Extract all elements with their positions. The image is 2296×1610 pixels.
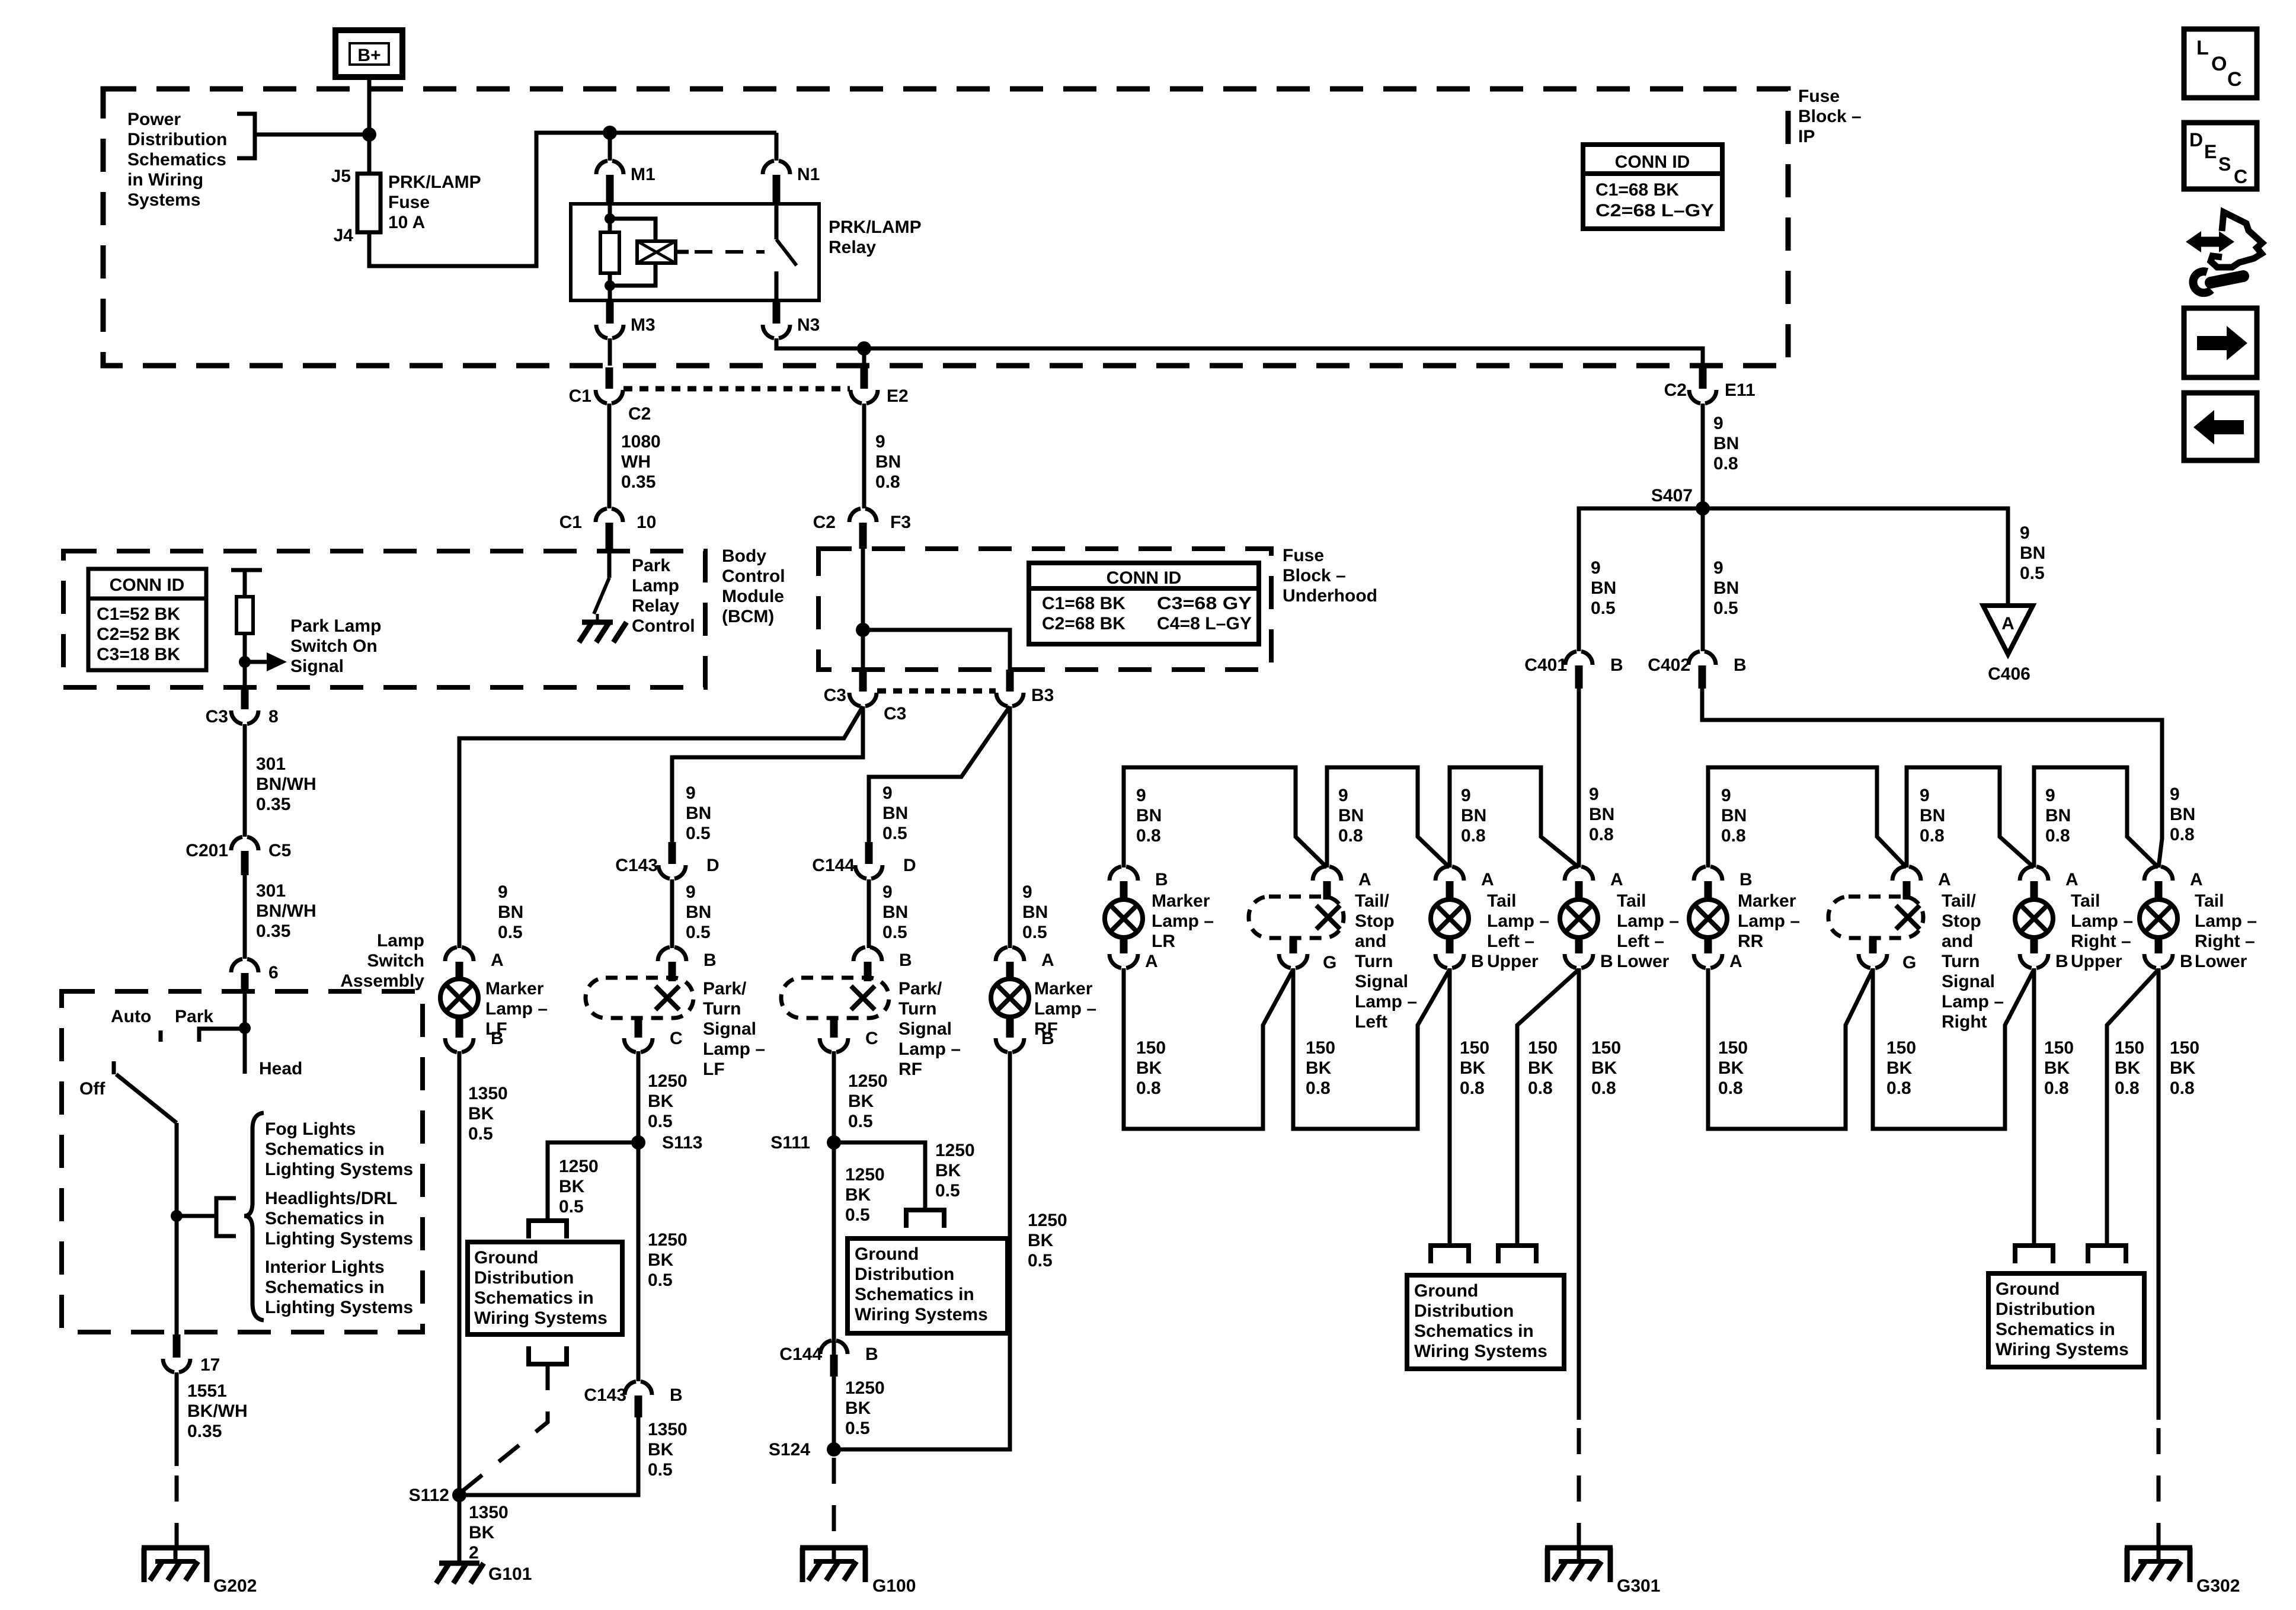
wire marker RR A to tail/stop right G [1708, 968, 1873, 1129]
svg-text:A: A [1145, 952, 1158, 971]
svg-text:M3: M3 [631, 315, 655, 335]
ground G202 [142, 1545, 209, 1551]
svg-text:BN: BN [1136, 806, 1162, 825]
lamp element X park/turn signal lamp LF [655, 986, 679, 1010]
wire junction to B3 [863, 630, 1010, 671]
svg-text:9: 9 [1721, 786, 1731, 805]
wire relay switch upper [775, 204, 779, 239]
svg-text:0.5: 0.5 [882, 923, 907, 942]
svg-text:C: C [2227, 68, 2242, 91]
svg-text:BN: BN [882, 804, 908, 823]
svg-text:B: B [2055, 952, 2068, 971]
svg-text:BK: BK [1306, 1058, 1332, 1078]
wire S407 to C401 [1579, 508, 1703, 651]
relay switch blade [776, 239, 797, 265]
svg-text:BN: BN [2020, 543, 2045, 563]
wire tail right upper B to ground dist [2032, 968, 2036, 1246]
svg-text:C201: C201 [186, 841, 228, 860]
svg-text:CONN ID: CONN ID [1107, 568, 1182, 588]
icon locator arrows [2196, 237, 2224, 247]
svg-text:1080: 1080 [621, 432, 661, 452]
svg-text:Park/: Park/ [703, 979, 747, 998]
svg-text:BN/WH: BN/WH [256, 901, 316, 921]
svg-text:B: B [670, 1385, 683, 1405]
svg-text:C: C [865, 1029, 878, 1048]
svg-text:BK: BK [1028, 1231, 1054, 1250]
svg-text:9: 9 [1713, 414, 1723, 433]
svg-text:C1: C1 [559, 513, 582, 532]
svg-text:BN: BN [1713, 578, 1739, 598]
svg-text:Distribution: Distribution [127, 130, 227, 149]
dotted connector link C3 to B3 [877, 689, 996, 694]
svg-text:Wiring Systems: Wiring Systems [855, 1305, 988, 1324]
svg-text:9: 9 [498, 882, 508, 902]
wire marker LR B to tail/stop left A [1124, 767, 1327, 868]
svg-text:9: 9 [882, 882, 893, 902]
svg-text:C3: C3 [824, 686, 846, 705]
svg-text:0.8: 0.8 [1589, 825, 1614, 844]
svg-text:1250: 1250 [648, 1230, 687, 1250]
svg-text:G101: G101 [488, 1564, 532, 1584]
svg-text:Signal: Signal [898, 1019, 952, 1039]
wire tail left upper B to ground dist [1448, 968, 1452, 1246]
svg-text:150: 150 [1460, 1038, 1489, 1058]
svg-text:A: A [491, 950, 504, 970]
wire relay coil bottom [608, 273, 612, 300]
svg-text:Assembly: Assembly [340, 971, 424, 991]
wire marker LF B down [458, 1051, 462, 1495]
conn id table BCM [88, 569, 206, 670]
wire S112 to G101 [458, 1495, 462, 1563]
svg-text:Lamp –: Lamp – [485, 999, 548, 1019]
svg-text:J5: J5 [331, 167, 351, 186]
svg-text:9: 9 [1338, 786, 1348, 805]
svg-text:J4: J4 [334, 226, 354, 245]
svg-text:Stop: Stop [1355, 911, 1395, 931]
junction S111 [827, 1135, 841, 1150]
wire tail left lower B branch to ground dist [1517, 969, 1579, 1246]
wire tail/stop left A to tail left upper A [1327, 767, 1450, 868]
svg-text:1250: 1250 [559, 1157, 599, 1176]
connector C3 pin 8 [241, 689, 249, 709]
junction S124 [827, 1442, 841, 1457]
svg-text:1350: 1350 [469, 1503, 509, 1522]
icon wrench [2211, 276, 2243, 283]
svg-text:BK: BK [845, 1185, 871, 1205]
svg-text:0.5: 0.5 [648, 1112, 673, 1131]
connector B3 underhood [1006, 670, 1014, 692]
wire tail left upper A to tail left lower A [1450, 767, 1579, 868]
connector C143 pin B [625, 1381, 652, 1395]
wire C402 to tail right lower A [1702, 689, 2162, 868]
svg-text:Wiring Systems: Wiring Systems [474, 1308, 607, 1328]
connector tail lamp right lower top pin A [2144, 866, 2173, 881]
svg-text:C: C [2234, 166, 2247, 187]
svg-text:9: 9 [2020, 523, 2030, 543]
wire E11 to S407 [1701, 404, 1705, 508]
svg-text:Lamp: Lamp [377, 931, 424, 950]
svg-text:Fuse: Fuse [1798, 87, 1840, 106]
svg-text:Lighting Systems: Lighting Systems [265, 1160, 413, 1179]
svg-text:BK: BK [2170, 1058, 2196, 1078]
svg-text:150: 150 [2115, 1038, 2144, 1058]
bracket into ground dist box 4 right [2088, 1246, 2126, 1263]
schematics tap bracket [216, 1198, 236, 1236]
junction signal arrow [239, 656, 251, 668]
icon back arrow box [2184, 393, 2257, 460]
svg-text:0.8: 0.8 [2045, 826, 2070, 846]
svg-text:9: 9 [1591, 558, 1601, 578]
svg-text:Right: Right [1942, 1012, 1987, 1032]
svg-text:1551: 1551 [187, 1381, 227, 1401]
svg-text:BN: BN [1338, 806, 1364, 825]
svg-text:1250: 1250 [848, 1071, 888, 1091]
svg-text:A: A [1481, 870, 1494, 889]
svg-text:Power: Power [127, 110, 181, 129]
connector tail/stop turn signal lamp right pin A [1892, 866, 1921, 881]
ground distribution box 1 [468, 1242, 622, 1334]
dashed wire to G302 [2157, 1428, 2161, 1548]
bracket into ground dist box 1 [529, 1221, 567, 1238]
svg-text:Tail: Tail [2195, 891, 2224, 911]
svg-text:B: B [1739, 870, 1753, 889]
svg-text:A: A [1358, 870, 1371, 889]
svg-text:150: 150 [1136, 1038, 1166, 1058]
wire BCM relay control [607, 551, 612, 578]
svg-text:1350: 1350 [468, 1084, 508, 1103]
svg-text:C2=68 BK: C2=68 BK [1042, 614, 1125, 633]
svg-text:301: 301 [256, 754, 286, 774]
wire C3-8 to C201 [243, 724, 247, 837]
svg-text:BK: BK [1136, 1058, 1162, 1078]
svg-text:17: 17 [200, 1355, 220, 1375]
svg-text:Lighting Systems: Lighting Systems [265, 1229, 413, 1249]
connector C143 pin D [669, 842, 676, 864]
svg-text:G202: G202 [213, 1576, 257, 1596]
svg-text:C2: C2 [628, 404, 651, 424]
connector C201 pin C5 [231, 837, 258, 850]
svg-text:0.5: 0.5 [648, 1460, 673, 1480]
svg-text:Tail/: Tail/ [1355, 891, 1389, 911]
svg-text:Distribution: Distribution [1414, 1301, 1514, 1321]
svg-text:Control: Control [722, 566, 785, 586]
svg-text:C401: C401 [1524, 655, 1567, 675]
svg-text:9: 9 [686, 882, 696, 902]
connector C1 pin 10 BCM [596, 508, 623, 522]
wire N3 to E11 [776, 338, 1703, 366]
svg-text:0.5: 0.5 [882, 824, 907, 843]
svg-text:C3=68 GY: C3=68 GY [1157, 594, 1252, 613]
svg-text:Stop: Stop [1942, 911, 1981, 931]
svg-text:G302: G302 [2196, 1576, 2240, 1596]
svg-text:LF: LF [703, 1060, 725, 1079]
connector marker lamp RR top pin B [1694, 866, 1722, 881]
svg-text:Tail: Tail [1617, 891, 1646, 911]
fuse block IP dashed border [103, 89, 1788, 366]
connector C144 pin D [865, 842, 873, 864]
svg-text:150: 150 [1886, 1038, 1916, 1058]
connector tail/stop turn signal lamp left pin A [1313, 866, 1341, 881]
lamp element X park/turn signal lamp RF [851, 986, 875, 1010]
junction relay feed [603, 126, 617, 140]
connector C401 pin B [1565, 651, 1593, 665]
svg-text:BK: BK [468, 1104, 494, 1124]
ground distribution box 4 [1988, 1273, 2144, 1367]
svg-text:BN: BN [1461, 806, 1486, 825]
svg-text:C1=68 BK: C1=68 BK [1595, 180, 1679, 200]
svg-text:in Wiring: in Wiring [127, 170, 203, 190]
svg-text:B3: B3 [1031, 686, 1054, 705]
off contact [112, 1061, 116, 1074]
junction B3 tap [856, 623, 870, 637]
svg-text:Fog Lights: Fog Lights [265, 1119, 356, 1139]
svg-text:2: 2 [469, 1543, 479, 1563]
wire coil branch bottom [610, 263, 655, 286]
svg-text:9: 9 [1713, 558, 1723, 578]
svg-text:1250: 1250 [845, 1165, 885, 1185]
wire junction to E2 [862, 348, 866, 366]
svg-text:0.8: 0.8 [1528, 1078, 1553, 1098]
svg-text:0.8: 0.8 [1718, 1078, 1743, 1098]
svg-text:Signal: Signal [703, 1019, 756, 1039]
connector park/turn signal lamp LF pin B [658, 947, 686, 961]
svg-text:C2: C2 [813, 513, 836, 532]
power distribution tap bracket [237, 114, 255, 158]
wire tail/stop right A to tail right upper A [1907, 767, 2034, 868]
svg-text:Park Lamp: Park Lamp [290, 616, 381, 636]
svg-text:Signal: Signal [290, 657, 344, 676]
park lamp switch signal stub [231, 568, 262, 572]
lamp switch blade [116, 1074, 177, 1123]
svg-text:BK: BK [648, 1250, 674, 1270]
wire C201 to lamp switch [243, 875, 247, 959]
power node B+ [335, 30, 402, 77]
wire C143B to S112 [459, 1417, 638, 1495]
svg-text:Distribution: Distribution [1996, 1299, 2095, 1319]
svg-text:0.8: 0.8 [1461, 826, 1486, 846]
svg-text:Right –: Right – [2195, 932, 2255, 951]
svg-text:Relay: Relay [632, 596, 679, 616]
connector tail/stop turn signal lamp left pin G [1290, 939, 1297, 953]
svg-text:Ground: Ground [1414, 1281, 1478, 1301]
svg-text:Relay: Relay [829, 238, 876, 257]
bracket into ground dist box 3 left [1431, 1246, 1469, 1263]
svg-text:BK: BK [1886, 1058, 1913, 1078]
svg-text:B: B [1471, 952, 1484, 971]
lamp tail lamp right lower [2140, 900, 2177, 937]
svg-text:150: 150 [1718, 1038, 1748, 1058]
dashed wire to G202 [175, 1475, 179, 1548]
svg-text:Schematics in: Schematics in [855, 1285, 974, 1304]
connector C1 fuse block IP [606, 367, 613, 389]
svg-text:BK: BK [559, 1177, 585, 1196]
svg-text:N1: N1 [797, 165, 820, 184]
svg-text:Ground: Ground [855, 1244, 919, 1264]
svg-text:A: A [2065, 870, 2078, 889]
svg-text:A: A [1041, 950, 1054, 970]
wire coil branch top [610, 219, 655, 241]
svg-text:Marker: Marker [1738, 891, 1796, 911]
svg-text:0.5: 0.5 [498, 923, 523, 942]
connector tail lamp right upper bottom pin B [2030, 936, 2038, 953]
svg-text:Auto: Auto [111, 1007, 151, 1026]
conn id table fuse block IP [1583, 145, 1722, 229]
svg-text:BN: BN [686, 902, 711, 922]
wire S407 to C402 [1701, 508, 1705, 651]
svg-text:0.5: 0.5 [935, 1181, 960, 1201]
connector park/turn signal lamp RF pin C [830, 1018, 838, 1038]
svg-text:B+: B+ [357, 46, 380, 65]
svg-text:Signal: Signal [1942, 972, 1995, 991]
svg-text:LR: LR [1152, 932, 1175, 951]
svg-text:Park: Park [632, 556, 670, 575]
svg-text:Lamp –: Lamp – [1355, 992, 1417, 1012]
wire M3 to C1 [608, 338, 612, 366]
svg-text:Left –: Left – [1617, 932, 1664, 951]
svg-text:Control: Control [632, 616, 695, 636]
svg-text:(BCM): (BCM) [722, 607, 774, 626]
svg-text:Fuse: Fuse [388, 193, 430, 212]
svg-text:150: 150 [1528, 1038, 1558, 1058]
svg-text:Turn: Turn [898, 999, 936, 1019]
svg-text:B: B [1734, 655, 1747, 675]
junction S112 [452, 1488, 466, 1502]
svg-text:D: D [706, 856, 720, 875]
svg-text:Marker: Marker [1152, 891, 1210, 911]
svg-text:C2=68 L–GY: C2=68 L–GY [1595, 201, 1714, 220]
svg-text:G301: G301 [1617, 1576, 1660, 1596]
connector tail/stop turn signal lamp right pin G [1869, 939, 1877, 953]
svg-text:BK: BK [1591, 1058, 1617, 1078]
park contact [199, 1029, 245, 1042]
bracket into ground dist box 4 left [2015, 1246, 2053, 1263]
svg-text:C143: C143 [584, 1385, 626, 1405]
lamp marker lamp LF [440, 979, 478, 1017]
ground G101 [439, 1561, 479, 1566]
connector C3 underhood [859, 670, 867, 692]
wire tail right lower B branch to ground dist [2107, 969, 2159, 1246]
lamp marker lamp RR [1689, 900, 1727, 937]
svg-text:0.8: 0.8 [1306, 1078, 1331, 1098]
svg-text:B: B [1600, 952, 1613, 971]
svg-text:0.35: 0.35 [256, 795, 290, 814]
svg-text:Lamp –: Lamp – [898, 1039, 961, 1059]
connector tail lamp left upper top pin A [1435, 866, 1464, 881]
svg-text:BK: BK [1460, 1058, 1486, 1078]
park lamp switch signal resistor [236, 597, 253, 633]
svg-text:RF: RF [898, 1060, 922, 1079]
svg-text:0.5: 0.5 [1713, 598, 1738, 618]
BCM internal ground [582, 620, 613, 625]
connector C2 pin F3 underhood [849, 508, 877, 522]
svg-text:Lamp –: Lamp – [703, 1039, 765, 1059]
svg-text:S112: S112 [409, 1486, 449, 1505]
svg-text:Schematics in: Schematics in [474, 1288, 594, 1308]
svg-text:C1=52 BK: C1=52 BK [97, 604, 180, 624]
lamp assembly dashed outline tail/stop turn signal lamp left [1249, 897, 1344, 938]
wire relay switch lower [775, 271, 779, 300]
svg-text:Left –: Left – [1487, 932, 1534, 951]
svg-text:S124: S124 [769, 1440, 810, 1459]
svg-text:E2: E2 [887, 386, 909, 406]
ground distribution box 2 [848, 1238, 1008, 1333]
svg-text:Distribution: Distribution [855, 1265, 954, 1284]
icon LOC box [2184, 29, 2257, 98]
svg-text:BK: BK [845, 1398, 871, 1418]
connector tail lamp left lower top pin A [1565, 866, 1593, 881]
svg-text:9: 9 [1461, 786, 1471, 805]
wire pin6 into switch [243, 994, 247, 1028]
svg-text:0.5: 0.5 [468, 1124, 493, 1144]
bracket into ground dist box 3 right [1498, 1246, 1536, 1263]
icon locator outline [2211, 212, 2262, 267]
junction on B+ wire [362, 127, 376, 142]
svg-text:B: B [703, 950, 717, 970]
svg-text:BN: BN [1591, 578, 1616, 598]
svg-text:6: 6 [268, 963, 279, 982]
svg-text:Lower: Lower [1617, 952, 1670, 971]
svg-text:Schematics: Schematics [127, 150, 226, 169]
svg-text:9: 9 [875, 432, 885, 452]
svg-text:C3: C3 [206, 707, 228, 726]
relay actuation dashed link [695, 250, 765, 254]
svg-text:B: B [1610, 655, 1623, 675]
svg-text:BN: BN [1713, 434, 1739, 453]
connector marker lamp RF pin B [1006, 1014, 1014, 1038]
svg-text:Lighting Systems: Lighting Systems [265, 1298, 413, 1317]
junction coil top [605, 213, 615, 224]
svg-text:B: B [2180, 952, 2193, 971]
auto contact [159, 1030, 163, 1042]
svg-text:BK: BK [648, 1440, 674, 1459]
connector tail lamp left lower bottom pin B [1575, 936, 1583, 953]
connector marker lamp RF pin A [996, 947, 1024, 961]
body control module dashed box [63, 551, 705, 687]
BCM relay control switch blade [594, 578, 609, 614]
wire S113 to ground dist [548, 1142, 638, 1221]
svg-text:F3: F3 [890, 513, 911, 532]
svg-text:C3: C3 [884, 704, 906, 724]
connector E11 fuse block IP [1699, 367, 1707, 389]
wire C3 to C143 [672, 706, 863, 842]
wire tail right upper A to tail right lower A [2034, 767, 2159, 868]
dashed wire to G301 [1577, 1428, 1581, 1548]
svg-text:0.5: 0.5 [845, 1419, 870, 1438]
svg-text:8: 8 [268, 707, 279, 726]
svg-text:Wiring Systems: Wiring Systems [1996, 1340, 2129, 1359]
svg-text:10 A: 10 A [388, 213, 425, 232]
svg-text:Block –: Block – [1798, 107, 1862, 126]
svg-text:S: S [2218, 153, 2231, 175]
svg-text:C144: C144 [779, 1345, 822, 1364]
svg-text:9: 9 [1920, 786, 1930, 805]
wire tail/stop right G to tail right upper B [1873, 968, 2034, 1129]
svg-text:Head: Head [259, 1059, 302, 1078]
svg-text:0.8: 0.8 [1920, 826, 1945, 846]
svg-text:150: 150 [1591, 1038, 1621, 1058]
svg-text:Lamp –: Lamp – [1034, 999, 1096, 1019]
wire fuse J4 to relay feed [369, 133, 776, 266]
svg-text:E: E [2204, 141, 2217, 162]
svg-text:0.5: 0.5 [845, 1205, 870, 1225]
svg-text:C1=68 BK: C1=68 BK [1042, 594, 1125, 613]
svg-text:C402: C402 [1648, 655, 1690, 675]
svg-text:Systems: Systems [127, 190, 200, 210]
svg-text:9: 9 [1022, 882, 1032, 902]
svg-text:Left: Left [1355, 1012, 1387, 1032]
svg-text:Lamp –: Lamp – [2071, 911, 2133, 931]
lamp assembly dashed outline tail/stop turn signal lamp right [1828, 897, 1923, 938]
